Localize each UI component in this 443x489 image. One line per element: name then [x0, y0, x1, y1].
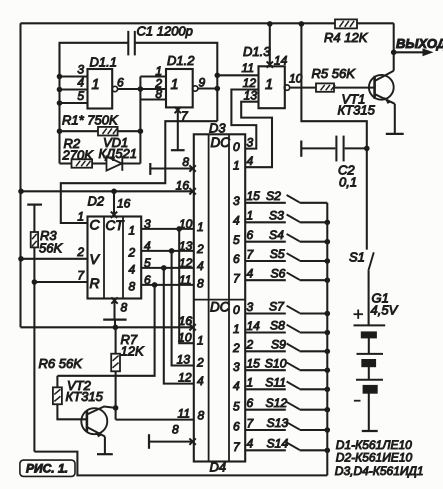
wire D1.2 pin7 ground: [171, 107, 189, 150]
svg-text:14: 14: [274, 54, 288, 68]
node R1 right: [138, 128, 144, 134]
svg-text:CT: CT: [106, 218, 126, 233]
wire drop to D4 pin10: [178, 229, 194, 345]
svg-text:6: 6: [117, 76, 124, 90]
svg-text:C1 1200p: C1 1200p: [137, 24, 193, 39]
svg-text:S4: S4: [269, 228, 284, 242]
svg-text:15: 15: [247, 357, 261, 371]
svg-text:8: 8: [182, 155, 189, 169]
svg-text:4: 4: [129, 262, 136, 276]
svg-text:D3: D3: [209, 121, 226, 136]
svg-text:12K: 12K: [121, 344, 145, 359]
wire D1.1 output pin6: [117, 76, 166, 91]
wire pin4: [60, 76, 88, 90]
svg-text:16: 16: [117, 197, 131, 211]
node VT2 collector: [113, 405, 119, 411]
wire VD1 right: [122, 162, 140, 164]
D3 output digit 7: [233, 271, 241, 285]
wire battery feed: [301, 24, 366, 250]
svg-text:S7: S7: [269, 300, 285, 314]
ground D3 pin8: [150, 155, 196, 175]
wire D1.3 pin13 hook: [241, 89, 272, 168]
ground VT1 emitter: [386, 133, 404, 135]
node V wire: [18, 256, 24, 262]
D4 output digit 2: [232, 341, 240, 355]
svg-text:6: 6: [247, 228, 254, 242]
D4 output digit 5: [233, 399, 240, 413]
svg-text:R1* 750K: R1* 750K: [62, 113, 119, 128]
svg-text:8: 8: [198, 409, 205, 423]
svg-text:1: 1: [247, 209, 254, 223]
svg-text:S14: S14: [267, 437, 289, 451]
switch S11: [245, 376, 330, 393]
wire R2 to VD1: [92, 162, 107, 164]
resistor R2: [62, 136, 95, 168]
node drop pin11: [152, 282, 158, 288]
wire D2 out pin6: [141, 273, 194, 287]
node pin9 junction: [215, 86, 221, 92]
resistor R6: [39, 356, 84, 404]
wire clock path to D2: [61, 121, 218, 223]
D3 output pin 4: [247, 154, 254, 168]
resistor R7: [111, 332, 145, 371]
svg-text:D2: D2: [88, 194, 105, 209]
switch S6: [245, 266, 330, 283]
wire drop to D4 pin13: [172, 251, 194, 367]
node C2 junction: [364, 146, 370, 152]
wire vertical node B: [139, 77, 141, 164]
wire D2 out pin3: [141, 217, 194, 231]
resistor R3: [31, 228, 64, 256]
switch S1: [349, 250, 374, 271]
switch S5: [245, 247, 330, 264]
svg-text:1: 1: [197, 220, 204, 234]
wire S1 to battery: [368, 271, 370, 326]
switch S7: [245, 300, 330, 317]
capacitor C1: [128, 24, 193, 56]
D3 output digit 6: [233, 252, 240, 266]
D4 output digit 7: [233, 440, 241, 454]
node bus R1: [57, 128, 63, 134]
transistor VT1: [338, 71, 395, 118]
svg-text:S1: S1: [349, 250, 365, 265]
wire D1.2 pin8: [140, 87, 166, 101]
svg-text:16: 16: [179, 314, 193, 328]
svg-text:3: 3: [77, 63, 84, 77]
svg-text:R: R: [90, 275, 100, 291]
D3 output digit 3: [233, 194, 240, 208]
wire C1 loop left: [60, 43, 129, 77]
svg-text:56K: 56K: [39, 241, 63, 256]
switch S10: [245, 356, 330, 373]
svg-text:13: 13: [177, 353, 191, 367]
ground VT2 emitter: [97, 453, 113, 455]
svg-text:16: 16: [176, 179, 190, 193]
D3 output digit 1: [233, 158, 240, 172]
node top junction battery: [299, 21, 305, 27]
wire D2 pin16 drop: [111, 191, 131, 218]
node R wire: [32, 279, 38, 285]
logic gate D1.1: [88, 55, 118, 109]
decoder D3 D4: [194, 121, 245, 475]
antenna plate: [27, 205, 42, 233]
svg-text:C: C: [90, 217, 101, 233]
svg-text:S12: S12: [266, 396, 288, 410]
D4 pin16 entry label: [179, 314, 193, 328]
node drop pin10: [176, 226, 182, 232]
svg-text:8: 8: [155, 87, 162, 101]
D3 output digit 4: [233, 214, 240, 228]
svg-text:КД521: КД521: [99, 146, 138, 161]
wire pin3: [60, 63, 88, 77]
svg-text:5: 5: [77, 89, 84, 103]
node top junction pin14: [267, 21, 273, 27]
wire R2 row left: [60, 162, 72, 164]
wire VT1 collector: [393, 52, 395, 71]
wire R1 left: [60, 130, 99, 132]
resistor R4: [324, 19, 369, 45]
switch S8: [245, 319, 330, 336]
diode VD1: [99, 135, 138, 171]
svg-text:0: 0: [233, 140, 240, 154]
switch S9: [245, 338, 330, 355]
switch S2: [245, 189, 327, 203]
svg-text:12: 12: [179, 256, 193, 270]
node sensor D2: [111, 189, 117, 195]
wire D1.3 pin11: [217, 61, 258, 75]
node rail R7: [113, 325, 119, 331]
svg-text:5: 5: [233, 399, 240, 413]
capacitor C2: [301, 136, 367, 190]
D3 output pin 3: [247, 135, 254, 149]
svg-text:1: 1: [233, 158, 240, 172]
svg-text:1: 1: [92, 77, 100, 93]
wire VT2 emitter: [104, 437, 106, 454]
svg-text:4: 4: [77, 76, 84, 90]
svg-text:D4: D4: [210, 460, 227, 475]
svg-text:8: 8: [172, 423, 179, 437]
ground battery minus: [362, 430, 378, 432]
svg-text:4: 4: [197, 374, 204, 388]
wire D4 pin16 label: [0, 0, 1, 1]
svg-text:КТ315: КТ315: [338, 103, 376, 118]
wire D1.2 pin1: [140, 64, 166, 78]
wire left supply rail: [19, 23, 21, 327]
svg-text:8: 8: [121, 301, 128, 315]
wire D2 pin7: [34, 269, 87, 283]
wire sensor row: [21, 179, 196, 195]
svg-text:1: 1: [247, 376, 254, 390]
svg-text:4: 4: [233, 379, 240, 393]
wire D1.2 output pin9: [198, 76, 217, 90]
svg-text:D1.3: D1.3: [243, 44, 271, 59]
wire D2 out pin5: [141, 256, 194, 270]
D4 output digit 3: [233, 360, 240, 374]
wire rail y327: [21, 314, 196, 331]
node D1.1 out junction: [138, 86, 144, 92]
svg-text:9: 9: [199, 76, 206, 90]
node bus pin3: [57, 74, 63, 80]
ground D4 pin8: [149, 423, 196, 449]
svg-text:1: 1: [197, 334, 204, 348]
logic gate D1.2: [166, 53, 198, 107]
output arrow: [394, 36, 443, 56]
svg-text:270K: 270K: [62, 148, 95, 163]
D4 input digits: [196, 334, 205, 423]
svg-text:5: 5: [233, 233, 240, 247]
svg-text:4,5V: 4,5V: [371, 303, 399, 318]
resistor R5: [312, 66, 357, 92]
D3 input digits: [196, 220, 204, 291]
node drop pin13: [169, 248, 175, 254]
svg-text:DC: DC: [211, 135, 231, 150]
svg-text:S6: S6: [271, 266, 286, 280]
wire R5 to VT1 base: [334, 87, 375, 89]
svg-text:S8: S8: [270, 319, 285, 333]
svg-text:14: 14: [247, 319, 261, 333]
svg-text:6: 6: [233, 420, 240, 434]
wire bottom left step: [34, 452, 327, 476]
svg-text:13: 13: [244, 89, 258, 103]
svg-text:2: 2: [128, 245, 136, 259]
wire R7 bottom: [115, 371, 117, 419]
svg-text:3: 3: [233, 360, 240, 374]
wire VT1 emitter: [394, 104, 396, 134]
svg-text:S11: S11: [265, 376, 286, 390]
svg-text:10: 10: [178, 331, 192, 345]
svg-text:4: 4: [247, 437, 254, 451]
svg-text:1: 1: [233, 322, 240, 336]
wire top supply rail: [21, 22, 394, 24]
wire R6 top: [56, 376, 58, 388]
svg-text:12: 12: [178, 371, 192, 385]
switch S4: [245, 228, 330, 245]
counter D2: [88, 194, 142, 299]
wire D1.3 pin12 hook: [231, 76, 258, 149]
wire R7 top: [115, 327, 117, 353]
wire drop to D4 pin12: [164, 268, 194, 385]
svg-text:5: 5: [144, 256, 151, 270]
node sensor left: [18, 189, 24, 195]
wire D2 pin1 label: [77, 210, 84, 224]
svg-text:6: 6: [144, 273, 151, 287]
wire D2 pin2: [21, 245, 88, 259]
svg-text:8: 8: [197, 277, 204, 291]
svg-text:2: 2: [196, 242, 204, 256]
svg-text:6: 6: [247, 396, 254, 410]
figure label: [20, 460, 75, 476]
switch S13: [245, 416, 330, 433]
D3 output digit 0: [233, 140, 240, 154]
wire drop pin6 to R-network: [57, 285, 154, 376]
node drop pin12: [161, 265, 167, 271]
svg-text:S10: S10: [265, 356, 287, 370]
svg-text:ВЫХОД: ВЫХОД: [396, 36, 443, 51]
wire R6 bottom: [57, 404, 87, 419]
node bus pin5: [57, 100, 63, 106]
svg-text:2: 2: [76, 245, 84, 259]
svg-text:S2: S2: [266, 189, 281, 203]
svg-text:D3,D4-К561ИД1: D3,D4-К561ИД1: [335, 464, 424, 478]
svg-text:РИС. 1.: РИС. 1.: [26, 462, 68, 476]
svg-text:4: 4: [197, 259, 204, 273]
battery G1: [354, 291, 399, 431]
svg-text:15: 15: [247, 189, 261, 203]
D4 output digit 4: [233, 379, 240, 393]
parts list text: [335, 438, 424, 478]
svg-text:2: 2: [246, 338, 254, 352]
svg-text:0: 0: [233, 303, 240, 317]
svg-text:2: 2: [232, 341, 240, 355]
svg-text:КТ315: КТ315: [66, 389, 104, 404]
wire D1.3 output pin10: [289, 72, 316, 88]
wire D2 out pin4: [141, 239, 194, 253]
switch S12: [245, 396, 330, 413]
svg-text:D2-К561ИЕ10: D2-К561ИЕ10: [336, 450, 413, 464]
svg-text:S3: S3: [269, 209, 284, 223]
svg-text:1: 1: [129, 223, 136, 237]
D4 output digit 6: [233, 420, 240, 434]
resistor R1: [62, 113, 119, 136]
svg-text:3: 3: [144, 217, 151, 231]
svg-text:S13: S13: [267, 416, 289, 430]
wire switch bus: [326, 203, 328, 476]
svg-text:R6 56K: R6 56K: [39, 356, 84, 371]
svg-text:11: 11: [242, 61, 254, 75]
logic gate D1.3: [243, 44, 290, 108]
switch S14: [245, 437, 330, 454]
wire pin5: [60, 89, 88, 103]
wire D2 pin8 ground: [103, 297, 127, 327]
D4 output digit 0: [233, 303, 240, 317]
wire R1 right: [118, 130, 141, 132]
wire R3 down: [33, 247, 35, 451]
svg-text:13: 13: [179, 239, 193, 253]
svg-text:1: 1: [155, 64, 162, 78]
wire C1 to D1.2 output: [135, 43, 218, 121]
svg-text:3: 3: [247, 300, 254, 314]
svg-text:DC: DC: [210, 300, 230, 315]
svg-text:8: 8: [129, 280, 136, 294]
svg-text:4: 4: [247, 154, 254, 168]
svg-text:R5 56K: R5 56K: [312, 66, 357, 81]
svg-text:2: 2: [196, 356, 204, 370]
transistor VT2: [66, 378, 116, 437]
svg-text:4: 4: [233, 214, 240, 228]
svg-text:4: 4: [144, 239, 151, 253]
svg-text:1: 1: [265, 77, 273, 93]
svg-text:R4 12K: R4 12K: [324, 30, 369, 45]
svg-text:3: 3: [247, 135, 254, 149]
wire collector drop R4: [393, 23, 395, 52]
node pin11 junction: [215, 73, 221, 79]
svg-text:6: 6: [233, 252, 240, 266]
wire input bus D1.1: [58, 43, 60, 164]
svg-text:11: 11: [179, 273, 191, 287]
D3 output digit 5: [233, 233, 240, 247]
node output: [391, 50, 397, 56]
node bus pin4: [57, 87, 63, 93]
svg-text:D1.2: D1.2: [167, 53, 195, 68]
svg-text:4: 4: [247, 267, 254, 281]
D4 output digit 1: [233, 322, 240, 336]
svg-text:1: 1: [77, 210, 84, 224]
svg-text:S9: S9: [271, 338, 286, 352]
svg-text:11: 11: [178, 407, 190, 421]
svg-text:0,1: 0,1: [339, 175, 357, 190]
svg-text:3: 3: [233, 194, 240, 208]
wire D4 pin11: [116, 407, 194, 421]
switch S3: [245, 209, 330, 226]
svg-text:S5: S5: [270, 247, 285, 261]
svg-text:1: 1: [171, 77, 179, 93]
svg-text:D1.1: D1.1: [90, 55, 117, 70]
wire D1.3 pin14: [267, 24, 288, 68]
